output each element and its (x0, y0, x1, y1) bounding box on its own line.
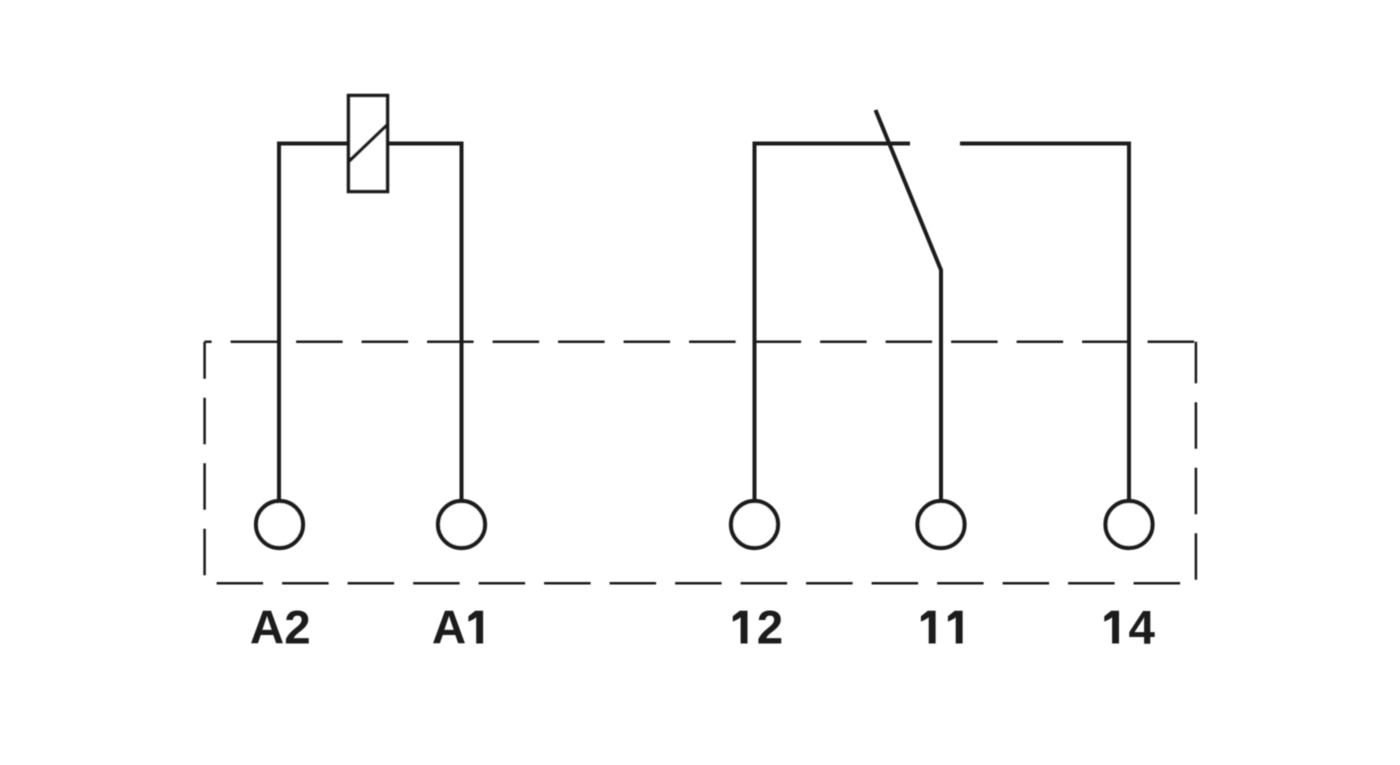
terminal circle 14 (1106, 501, 1153, 548)
wire A2 vertical and horizontal to coil (279, 144, 347, 503)
label 14 (1104, 602, 1155, 655)
dashed enclosure right edge (1195, 342, 1198, 583)
terminal circle 11 (918, 501, 965, 548)
switch arm of contact 11 (876, 110, 942, 502)
terminal circle A1 (438, 501, 485, 548)
label 12 (733, 602, 783, 655)
dashed enclosure left edge (203, 342, 206, 583)
dashed enclosure bottom edge (205, 582, 1196, 585)
terminal circle A2 (256, 501, 303, 548)
dashed enclosure top edge (205, 341, 1196, 344)
svg-text:4: 4 (1128, 602, 1155, 655)
terminal circle 12 (731, 501, 778, 548)
svg-text:2: 2 (757, 602, 783, 655)
relay coil K1 rectangle (349, 96, 388, 192)
label A1 (432, 602, 483, 655)
wire from coil to A1 vertical (389, 144, 462, 503)
wire 12 vertical and horizontal to contact (755, 144, 911, 503)
relay coil K1 diagonal (349, 125, 388, 162)
svg-text:A: A (432, 602, 466, 655)
wire 14 horizontal and vertical (960, 144, 1129, 503)
label 11 (921, 611, 963, 644)
svg-text:A2: A2 (250, 602, 311, 655)
